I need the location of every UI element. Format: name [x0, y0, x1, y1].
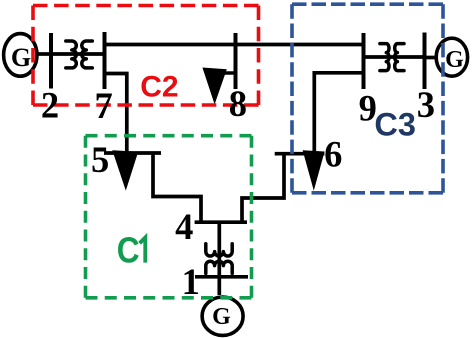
- svg-text:7: 7: [94, 85, 112, 126]
- svg-text:C: C: [117, 231, 140, 271]
- svg-text:C2: C2: [140, 71, 178, 104]
- svg-text:3: 3: [417, 84, 435, 125]
- wire: load stub at bus 8: [224, 71, 236, 75]
- svg-text:G: G: [11, 43, 31, 72]
- bus 8 bar: [234, 33, 238, 89]
- bus 6 bar: [275, 152, 325, 156]
- svg-text:8: 8: [229, 83, 247, 124]
- transformer T1 left coil: [66, 41, 77, 68]
- wire: bus 4 to bus 6: [242, 154, 284, 223]
- bus 9 bar: [362, 33, 366, 89]
- label zone C1: [117, 231, 146, 271]
- generator G2 (left) circle: [4, 34, 37, 77]
- svg-text:4: 4: [175, 206, 193, 247]
- wire: bus 4 through transformer T3 to bus 1: [217, 222, 221, 277]
- load arrow at bus 8: [202, 68, 226, 105]
- transformer T2 left coil: [380, 44, 389, 71]
- bus 3 bar: [423, 33, 427, 90]
- zone C3 box (blue dashed): [292, 4, 443, 193]
- wire: generator G2 lead to bus 2: [36, 52, 52, 56]
- transformer T1 right coil: [82, 41, 93, 68]
- svg-text:C3: C3: [374, 106, 416, 142]
- zone C1 box (green dashed): [86, 136, 252, 298]
- generator G1 (bottom) circle: [202, 297, 243, 335]
- svg-text:1: 1: [182, 261, 200, 302]
- wire: bus 3 to generator G3: [425, 56, 438, 60]
- zone C2 box (red dashed): [33, 6, 259, 106]
- svg-text:G: G: [212, 304, 231, 330]
- load arrow at bus 5: [112, 150, 138, 190]
- wire: bus 7 branch to bus 5: [105, 74, 127, 153]
- svg-text:5: 5: [91, 139, 109, 180]
- svg-text:6: 6: [324, 133, 342, 174]
- bus 2 bar: [49, 33, 53, 89]
- generator G3 (right) circle: [436, 38, 467, 76]
- wire: bus 2 to transformer T1 to bus 7: [51, 52, 105, 56]
- wire: bus 1 to generator G1: [217, 277, 221, 295]
- wire: bus 9 branch to bus 6: [314, 73, 363, 151]
- wire: bus 5 to bus 4: [153, 153, 201, 222]
- bus 1 bar: [195, 275, 248, 279]
- bus 7 bar: [103, 32, 107, 89]
- transformer T3 top coil: [206, 244, 232, 256]
- bus 5 bar: [104, 151, 161, 155]
- svg-text:G: G: [445, 47, 464, 73]
- load arrow at bus 6: [303, 150, 325, 190]
- svg-text:2: 2: [41, 84, 59, 125]
- bus 4 bar: [195, 220, 247, 224]
- wire: top line bus 7 to bus 9: [105, 43, 364, 47]
- wire: bus 9 to transformer T2 to bus 3: [364, 55, 425, 59]
- transformer T2 right coil: [395, 44, 404, 71]
- transformer T3 bottom coil: [206, 261, 232, 273]
